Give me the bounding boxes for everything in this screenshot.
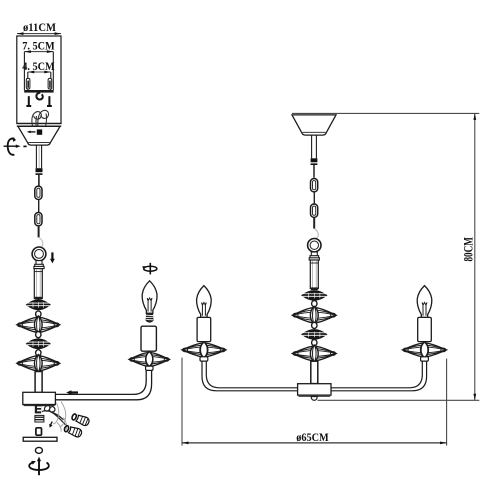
mounting plate outer lines	[24, 52, 53, 91]
right candle bobeche	[403, 342, 447, 358]
bead 2 (assembled)	[312, 322, 317, 328]
chain link 2 (assembled)	[311, 204, 318, 217]
left candle bulb	[197, 286, 212, 318]
tube cap above disc	[35, 297, 42, 300]
svg-text:7. 5CM: 7. 5CM	[22, 39, 55, 53]
canopy (assembled)	[292, 115, 336, 135]
tube cap above disc (assembled)	[311, 287, 318, 290]
dimension line 7.5cm	[24, 51, 53, 53]
bobeche (exploded)	[129, 351, 169, 367]
chain wire to ring	[38, 226, 40, 238]
faint hook (assembled)	[315, 229, 318, 238]
arrow pointing left at hub	[66, 390, 78, 395]
bulb screw base	[146, 313, 154, 323]
ceiling hook curl	[36, 93, 42, 100]
upper column tube (assembled)	[310, 260, 318, 289]
slot plate	[36, 428, 42, 435]
central hub (assembled)	[298, 384, 331, 397]
dimension line 65cm	[182, 442, 447, 445]
bead 1 (assembled)	[312, 301, 317, 307]
extension line right (65cm)	[446, 359, 448, 446]
right candle collar	[421, 342, 429, 361]
chain link 1 (assembled)	[311, 179, 318, 192]
dimension line diameter 11cm	[17, 33, 61, 35]
mounting screw right	[47, 96, 52, 107]
threaded rod below canopy	[36, 145, 41, 169]
ring collar stack (assembled)	[309, 252, 319, 260]
extension line left (65cm)	[181, 358, 183, 446]
ring collar stack	[34, 261, 44, 269]
upper column tube (exploded)	[34, 269, 42, 299]
left candle collar	[200, 342, 208, 361]
dimension line 80cm	[473, 113, 476, 400]
faint hanging hook	[39, 238, 42, 247]
lower column tube (exploded)	[35, 372, 42, 393]
bead 1 (exploded column)	[36, 311, 41, 317]
canopy (exploded view)	[18, 126, 60, 145]
wire pigtails	[42, 405, 66, 425]
canopy nipple	[37, 129, 42, 134]
down arrow beside ring	[50, 252, 55, 263]
chain wire segment (assembled)	[313, 192, 315, 204]
extension line bottom (80cm)	[318, 399, 480, 401]
rod connector block	[36, 168, 43, 186]
hex nut	[35, 415, 44, 422]
ornament diamond 1 (assembled)	[293, 306, 337, 324]
left candle candle sleeve	[197, 317, 211, 341]
bead 3 (assembled)	[312, 340, 317, 346]
chain link 2 (exploded)	[35, 213, 42, 226]
bead 3 (exploded column)	[36, 350, 41, 356]
ornament diamond 2 (exploded column)	[17, 354, 60, 372]
ornament disc 1 (assembled)	[302, 291, 327, 301]
mounting plate bottom bar	[24, 90, 53, 93]
svg-text:80CM: 80CM	[461, 237, 475, 262]
ornament diamond 2 (assembled)	[293, 345, 337, 362]
mounting screw left	[26, 96, 31, 107]
left arm (assembled)	[202, 361, 298, 391]
right arm (assembled)	[331, 361, 427, 391]
right candle candle sleeve	[418, 317, 432, 341]
svg-text:4. 5CM: 4. 5CM	[22, 59, 55, 73]
arrow pointing at nipple	[27, 131, 36, 134]
left candle bobeche	[182, 342, 226, 358]
mounting plate inner lines	[28, 72, 51, 90]
hub finial knob	[311, 397, 317, 401]
rod below canopy (assembled)	[312, 135, 317, 158]
bulb (exploded)	[142, 281, 157, 313]
ornament disc 2 (assembled)	[302, 330, 327, 340]
rotation symbol (canopy)	[4, 137, 27, 155]
wire nut A	[71, 412, 90, 426]
ornament disc 1 (exploded column)	[27, 300, 51, 310]
svg-text:ø65CM: ø65CM	[296, 430, 329, 444]
ornament disc 2 (exploded column)	[27, 339, 51, 349]
bobeche cup and collar (exploded)	[146, 352, 153, 371]
detail view outer box	[17, 36, 61, 124]
detail box bottom double edge	[17, 123, 62, 126]
arm (exploded view)	[56, 371, 152, 400]
central hub (exploded)	[23, 392, 56, 405]
wire nut B	[63, 424, 82, 438]
keyhole slot right	[48, 78, 52, 89]
rotation symbol (bulb)	[142, 263, 157, 275]
right candle bulb	[417, 286, 432, 318]
candle sleeve (exploded)	[141, 326, 156, 351]
rod connector (assembled)	[311, 158, 318, 177]
chain link 1 (exploded)	[35, 186, 42, 199]
small bent arrow	[49, 422, 52, 428]
chain wire to ring (assembled)	[313, 217, 315, 228]
hanging ring (exploded)	[32, 247, 46, 261]
chain wire segment	[38, 200, 40, 213]
terminal bracket	[35, 405, 41, 414]
extension line top (80cm)	[292, 112, 479, 114]
lower column tube (assembled)	[311, 361, 318, 383]
mounting strap bar	[23, 437, 57, 441]
dimension line 4.5cm	[28, 71, 51, 73]
bead 2 (exploded column)	[36, 332, 41, 338]
keyhole slot left	[26, 78, 30, 89]
hanging ring (assembled)	[308, 239, 321, 252]
svg-text:ø11CM: ø11CM	[23, 20, 56, 34]
rotation symbol (bottom)	[29, 457, 49, 476]
ornament diamond 1 (exploded column)	[17, 316, 60, 334]
twisted supply wires	[32, 110, 49, 135]
washer ring	[35, 447, 42, 453]
